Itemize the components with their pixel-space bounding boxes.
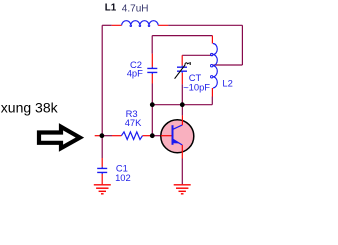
wire emitter to ground bbox=[181, 159, 183, 185]
svg-text:L1: L1 bbox=[105, 3, 117, 14]
svg-text:4.7uH: 4.7uH bbox=[122, 4, 149, 15]
wire top rail bbox=[102, 25, 242, 135]
transistor Q1 circle bbox=[161, 120, 194, 153]
capacitor C1 bbox=[97, 167, 107, 184]
resistor R3 bbox=[121, 132, 142, 140]
junction: CT bottom / collector node bbox=[180, 102, 185, 107]
svg-text:47K: 47K bbox=[125, 117, 142, 128]
input block arrow bbox=[39, 127, 80, 148]
wire inner top (C2 top to L2 top) bbox=[152, 35, 212, 37]
junction: base node / C1 top bbox=[100, 133, 105, 138]
junction: C2 bottom on tank net bbox=[150, 102, 155, 107]
capacitor C2 bbox=[147, 54, 157, 84]
svg-text:4pF: 4pF bbox=[127, 67, 143, 78]
ground (C1) bbox=[94, 185, 111, 194]
svg-text:L2: L2 bbox=[222, 77, 232, 88]
svg-text:xung 38k: xung 38k bbox=[1, 100, 59, 116]
wire bottom net bbox=[152, 84, 212, 136]
inductor L2 bbox=[211, 36, 218, 97]
ground (emitter) bbox=[174, 185, 191, 194]
junction: C2 bottom branch at base bbox=[150, 133, 155, 138]
wire base line bbox=[95, 135, 100, 137]
svg-text:~10pF: ~10pF bbox=[183, 81, 210, 92]
inductor L1 bbox=[112, 21, 168, 27]
variable capacitor CT bbox=[175, 62, 191, 84]
wire C1 branch bbox=[101, 136, 103, 158]
svg-text:102: 102 bbox=[115, 172, 131, 183]
transistor Q1 symbol bbox=[161, 115, 183, 158]
wire CT top to L2 tap1 bbox=[182, 54, 212, 56]
